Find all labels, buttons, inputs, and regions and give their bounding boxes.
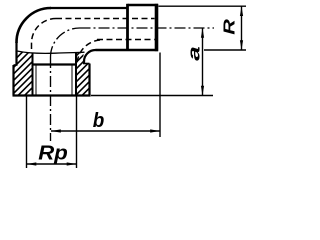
arrow a bottom — [201, 86, 204, 96]
arrow Rp right — [67, 162, 77, 165]
socket left band step — [14, 64, 18, 66]
extension line: male end bottom — [204, 49, 246, 51]
dimension b line — [51, 130, 160, 132]
socket thread end (interior top) — [32, 63, 78, 65]
male end shoulder — [126, 4, 129, 51]
centerline horizontal (dash-dot) — [80, 27, 215, 29]
svg-text:R: R — [222, 19, 239, 35]
elbow body: outer arc of bend — [16, 8, 51, 43]
hatching right wall — [70, 32, 100, 108]
extension line: male end top — [159, 5, 247, 7]
extension line: b right — [159, 53, 161, 138]
arrow R bottom — [240, 40, 243, 50]
hidden bore vertical left (dashed) — [31, 43, 33, 51]
socket right outer wall upper — [83, 61, 85, 64]
socket bore right wall — [75, 53, 77, 96]
socket right band outer — [88, 64, 90, 96]
socket left outer wall upper — [15, 42, 17, 65]
socket thread line left — [35, 65, 37, 96]
centerline bend arc (dash-dot) — [51, 28, 80, 57]
hidden bore arc upper-left (dashed) — [31, 19, 56, 44]
body bottom edge — [96, 49, 159, 51]
arrow R top — [240, 6, 243, 16]
dimension R line — [241, 6, 243, 50]
socket bore left wall — [32, 53, 34, 96]
svg-text:Rp: Rp — [38, 143, 68, 165]
dimension a line — [202, 28, 204, 96]
hidden bore line lower (dashed) — [97, 39, 155, 41]
socket right band step — [83, 63, 90, 65]
dimension Rp line — [27, 163, 77, 165]
arrow b right — [150, 129, 160, 132]
extension line: Rp right — [76, 96, 78, 169]
male end face — [155, 4, 159, 51]
arrow Rp left — [27, 162, 37, 165]
socket left band outer — [12, 65, 14, 96]
svg-text:b: b — [93, 110, 105, 132]
hidden bore arc lower-right (dashed) — [77, 40, 100, 65]
inner fillet arc (body to socket) — [84, 50, 96, 62]
svg-text:a: a — [185, 46, 204, 61]
male end top edge — [128, 4, 159, 7]
hidden bore line upper (dashed) — [56, 18, 155, 20]
socket mouth face — [13, 94, 91, 96]
centerline vertical (dash-dot) — [50, 57, 52, 141]
arrow a top — [201, 28, 204, 38]
arrow b left — [51, 129, 61, 132]
hatching left wall — [6, 28, 40, 114]
socket thread line right — [71, 65, 73, 96]
casting break (wavy) line — [16, 51, 85, 54]
extension line: socket face — [91, 95, 213, 97]
extension line: Rp left — [26, 96, 28, 169]
body top edge — [50, 7, 128, 9]
